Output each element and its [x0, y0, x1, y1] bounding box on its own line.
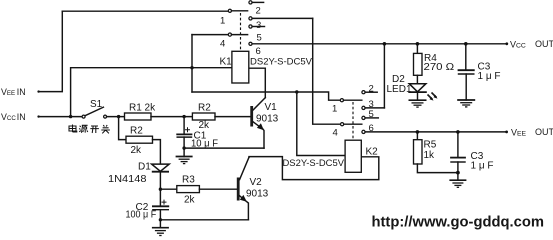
junction C2/emitter-rail node [159, 218, 162, 221]
K2 pin 1 common [332, 99, 362, 115]
svg-text:K2: K2 [366, 147, 379, 158]
relay K1 coil [220, 51, 249, 83]
capacitor C2 100uF [126, 200, 169, 221]
svg-text:1 μ F: 1 μ F [471, 161, 494, 172]
svg-text:3: 3 [256, 20, 261, 31]
wire K1 pin4 riser [191, 35, 193, 92]
K1 armature link (dashed) [240, 13, 242, 51]
junction R2 branch [117, 115, 120, 118]
resistor R5 1k [414, 132, 437, 164]
K1 contact 2 [249, 1, 264, 17]
K1 pin 4 common [192, 33, 248, 50]
junction R3 node [159, 188, 162, 191]
junction K2 coil feed [295, 90, 298, 93]
svg-text:6: 6 [256, 46, 261, 57]
svg-text:R2: R2 [130, 126, 143, 137]
wire V1 collector to K1 coil [249, 68, 265, 97]
svg-text:100 μ F: 100 μ F [126, 210, 157, 221]
capacitor C3 (bottom) [451, 132, 494, 172]
K1 contact 6 [249, 42, 261, 57]
node Vcc OUT [505, 39, 553, 50]
ground below C3 bottom [449, 180, 466, 187]
wire C3 bottom to ground node [457, 162, 459, 180]
svg-text:9013: 9013 [246, 189, 269, 200]
wire emitter return rail [160, 219, 248, 221]
node Vcc IN label [1, 112, 40, 122]
wire node to R3 [160, 188, 176, 190]
node VEE IN label [1, 87, 40, 97]
K2 contact 3 [362, 99, 385, 110]
svg-text:2k: 2k [199, 120, 211, 131]
junction contact3 riser on Vcc rail [383, 42, 387, 46]
wire coil feed riser [71, 68, 232, 117]
svg-text:5: 5 [369, 109, 374, 120]
svg-text:4: 4 [333, 128, 338, 139]
wire R1 to R2 [151, 116, 192, 118]
svg-text:R5: R5 [424, 140, 437, 151]
switch S1 [82, 99, 107, 118]
wire V1 emitter down [263, 129, 264, 148]
svg-text:LED1: LED1 [387, 84, 412, 95]
junction R4 tap on Vcc rail [416, 42, 420, 46]
wire R2 to D1 [153, 140, 161, 165]
svg-text:DS2Y-S-DC5V: DS2Y-S-DC5V [283, 158, 345, 168]
svg-text:5: 5 [257, 32, 262, 43]
svg-text:1 μ F: 1 μ F [478, 71, 501, 82]
resistor R2 (shunt 2k) [126, 126, 153, 156]
wire Vcc IN to S1 [39, 116, 83, 118]
svg-text:S1: S1 [90, 99, 103, 110]
junction C1 branch [182, 115, 185, 118]
wire K2 contact3 to Vcc rail [383, 44, 385, 108]
K2 contact 2 [362, 84, 377, 95]
svg-text:R3: R3 [182, 175, 195, 186]
resistor R4 270 [414, 44, 455, 76]
junction R5 tap on VEE rail [416, 130, 420, 134]
resistor R2 (series) [192, 103, 215, 132]
wire R2 to V1 base [215, 116, 250, 118]
label 电源开关 (power switch, drawn strokes) [69, 125, 110, 134]
svg-text:IN: IN [17, 87, 26, 97]
transistor V2 9013 [237, 157, 269, 202]
wire R5 bottom to C3 node [417, 164, 458, 173]
svg-text:9013: 9013 [256, 114, 279, 125]
junction C1/emitter-return node [182, 146, 185, 149]
junction Vcc/coil-feed [69, 115, 72, 118]
svg-text:OUT: OUT [535, 127, 553, 137]
svg-text:2: 2 [369, 84, 374, 95]
node VEE OUT [505, 127, 553, 138]
svg-text:R2: R2 [198, 103, 211, 114]
svg-text:IN: IN [17, 112, 26, 122]
svg-text:1: 1 [332, 104, 337, 115]
svg-text:1k: 1k [424, 150, 436, 161]
svg-text:2k: 2k [184, 195, 196, 206]
svg-text:1: 1 [220, 16, 225, 27]
junction coil feed / K1 pin4 branch [190, 66, 193, 69]
wire K2 coil feed [297, 92, 345, 156]
K1 contact 5 [249, 25, 265, 43]
wire Vcc OUT rail [252, 43, 507, 45]
K1 pin 1 common [220, 9, 248, 26]
ground below C1 [176, 157, 193, 164]
transistor V1 9013 [250, 98, 278, 131]
relay K2 coil [345, 140, 378, 172]
wire C2 to gnd/emitter rail [159, 210, 161, 228]
svg-text:http://www.go-gddq.com: http://www.go-gddq.com [372, 214, 545, 231]
svg-text:OUT: OUT [535, 39, 553, 49]
svg-text:DS2Y-S-DC5V: DS2Y-S-DC5V [250, 57, 313, 67]
wire D1 to R3/C2 node [159, 172, 161, 207]
capacitor C3 (top) [459, 44, 501, 82]
K2 contact 6 [362, 123, 374, 134]
svg-text:2: 2 [256, 6, 261, 17]
svg-text:D1: D1 [138, 162, 151, 173]
wire V2 emitter down [246, 201, 249, 220]
wire mid rail (pin4 net) to K2 pin1 [192, 92, 340, 100]
K2 armature link (dashed) [352, 102, 354, 140]
K2 pin 4 common [333, 123, 362, 139]
junction C3 tap on Vcc rail [464, 42, 468, 46]
wire V2 collector to K2 coil (loop) [249, 157, 379, 180]
wire S1 to R1 [107, 116, 125, 118]
ground below LED [409, 92, 427, 107]
svg-text:V2: V2 [250, 177, 263, 188]
ground below C2 [152, 228, 169, 236]
wire top rail to K1 pin 1 [62, 10, 228, 12]
wire K1 contact3 to K2 pin4 [313, 18, 341, 124]
capacitor C1 10uF [177, 117, 218, 150]
diode D1 1N4148 [108, 162, 169, 186]
resistor R1 [125, 103, 157, 121]
K1 contact 3 [249, 17, 313, 31]
ground below C3 top [457, 74, 475, 107]
LED D2 [387, 74, 438, 101]
svg-text:4: 4 [220, 39, 225, 50]
wire V1 emitter return [184, 147, 264, 149]
wire VEE OUT rail [365, 131, 507, 133]
wire R3 to V2 base [199, 188, 236, 190]
wire R2 shunt branch [119, 117, 126, 140]
svg-text:270 Ω: 270 Ω [424, 62, 455, 73]
svg-text:K1: K1 [220, 57, 233, 68]
junction C3 tap on VEE rail [456, 130, 460, 134]
resistor R3 [177, 175, 200, 206]
wire C1 bottom node [183, 137, 185, 156]
K2 contact 5 [362, 109, 378, 120]
svg-text:1N4148: 1N4148 [108, 174, 147, 185]
wire VEE IN to corner [39, 11, 63, 91]
svg-text:R1 2k: R1 2k [129, 103, 156, 114]
svg-text:2k: 2k [131, 145, 143, 156]
svg-text:V1: V1 [265, 102, 278, 113]
junction R5/C3/ground node [456, 171, 460, 175]
